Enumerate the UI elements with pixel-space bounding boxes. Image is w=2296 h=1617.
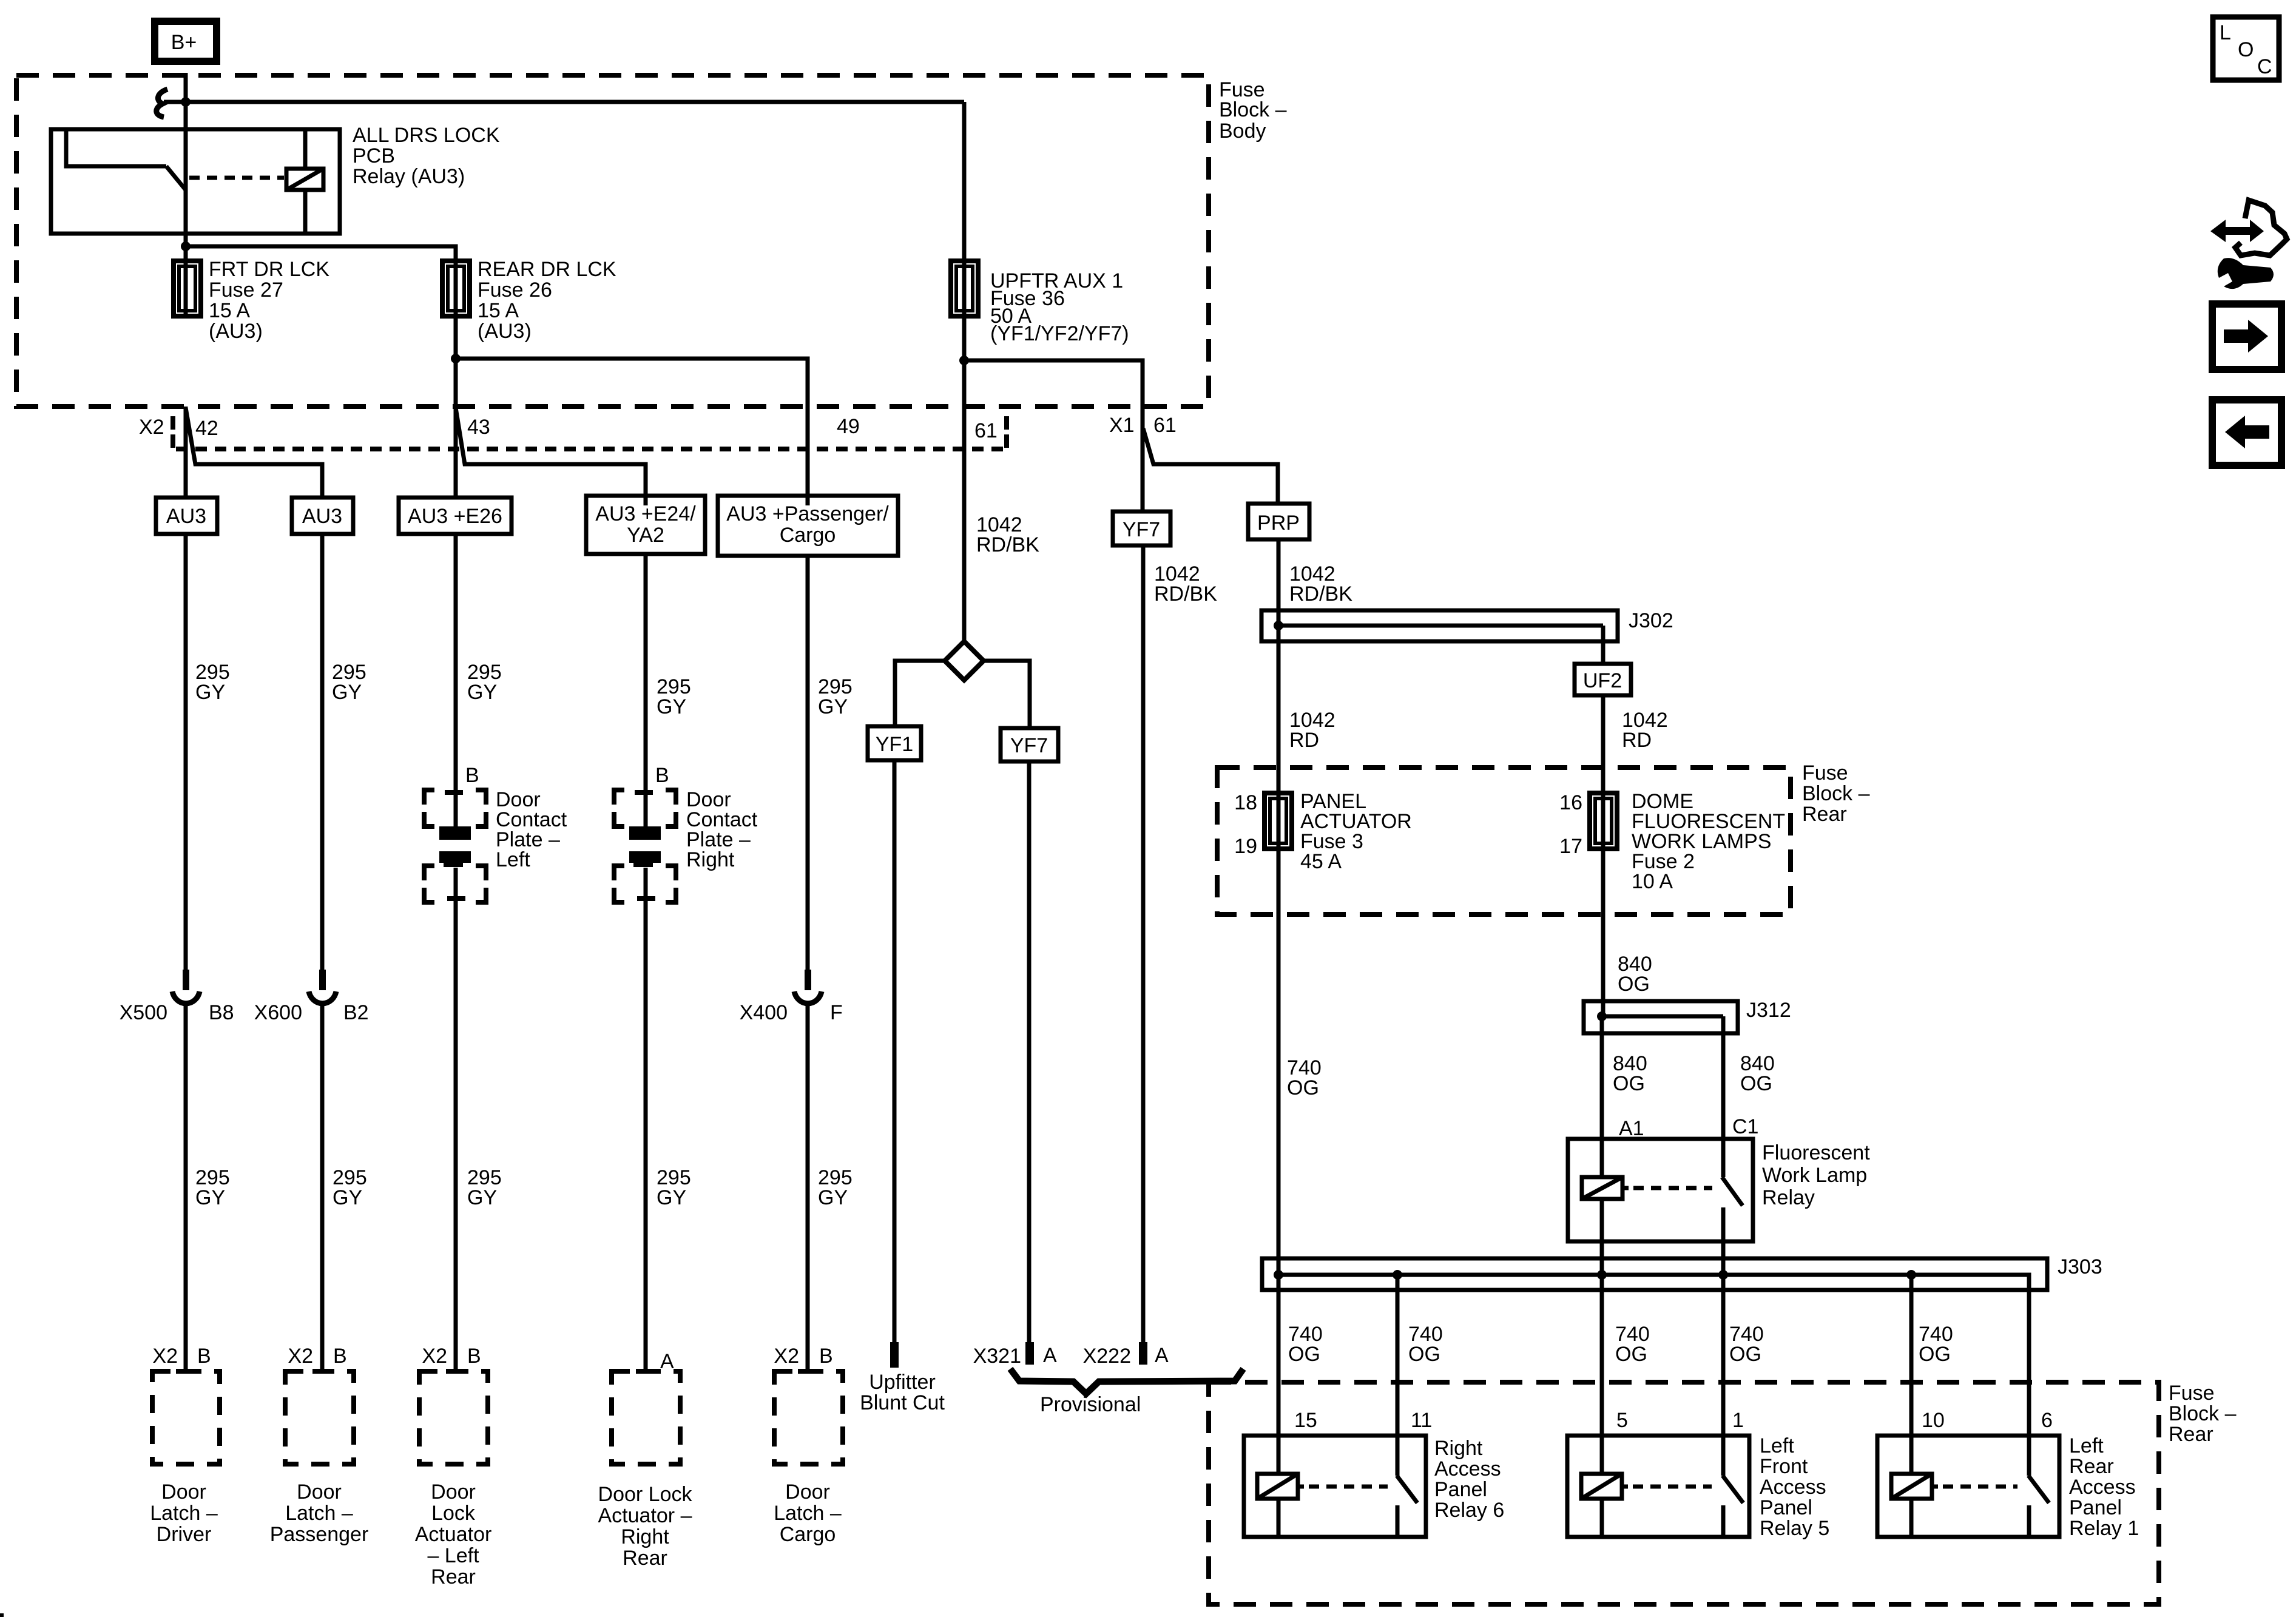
relay 1 actuation dashes bbox=[1943, 1485, 2017, 1489]
wire J303 to relay5 pin5 bbox=[1600, 1275, 1604, 1474]
power symbol B+ bbox=[155, 21, 217, 61]
wire 43a down bbox=[454, 534, 458, 826]
wire 42 down bbox=[184, 407, 188, 498]
svg-text:GY: GY bbox=[657, 1186, 686, 1209]
svg-text:Block –: Block – bbox=[2169, 1402, 2237, 1425]
svg-text:C1: C1 bbox=[1732, 1115, 1758, 1138]
svg-text:GY: GY bbox=[818, 695, 848, 718]
svg-text:15: 15 bbox=[1294, 1409, 1317, 1432]
svg-text:YF7: YF7 bbox=[1010, 734, 1048, 757]
wire X400 down bbox=[806, 1006, 810, 1371]
svg-text:18: 18 bbox=[1234, 791, 1257, 814]
label fuse 2 bbox=[1632, 790, 1785, 893]
svg-text:Lock: Lock bbox=[431, 1502, 476, 1525]
device box Door Lock Actuator Left Rear bbox=[419, 1371, 488, 1464]
svg-text:B: B bbox=[465, 764, 479, 787]
svg-text:(AU3): (AU3) bbox=[209, 320, 263, 343]
svg-text:GY: GY bbox=[333, 1186, 362, 1209]
splice pack J312 bbox=[1584, 1001, 1738, 1033]
svg-text:X321: X321 bbox=[973, 1345, 1021, 1368]
wire J303 to relay6 pin15 bbox=[1277, 1275, 1281, 1474]
corner mark bbox=[0, 1613, 4, 1617]
door contact plate right upper bracket bbox=[614, 790, 676, 826]
svg-text:UF2: UF2 bbox=[1583, 669, 1622, 692]
svg-text:Door: Door bbox=[297, 1480, 342, 1504]
wire YF7 X1 down bbox=[1141, 545, 1146, 1343]
wire diamond left branch to YF1 bbox=[895, 661, 945, 726]
svg-text:L: L bbox=[2220, 21, 2231, 44]
pin label X2 B (passenger latch) bbox=[288, 1345, 346, 1368]
svg-text:1: 1 bbox=[1732, 1409, 1744, 1432]
svg-text:Latch –: Latch – bbox=[150, 1502, 218, 1525]
svg-text:O: O bbox=[2238, 38, 2254, 61]
label Fuse Block - Body bbox=[1219, 78, 1287, 143]
svg-text:42: 42 bbox=[195, 417, 218, 440]
svg-text:B: B bbox=[655, 764, 669, 787]
svg-text:10 A: 10 A bbox=[1632, 870, 1673, 893]
upfitter blunt cut pin bbox=[890, 1342, 899, 1368]
connector X321 pin A bbox=[1025, 1342, 1034, 1365]
svg-text:(YF1/YF2/YF7): (YF1/YF2/YF7) bbox=[990, 322, 1129, 345]
svg-text:16: 16 bbox=[1559, 791, 1582, 814]
svg-text:Relay: Relay bbox=[1762, 1186, 1815, 1209]
svg-text:19: 19 bbox=[1234, 835, 1257, 858]
device box Door Lock Actuator Right Rear bbox=[612, 1371, 680, 1464]
wire label 295 GY r2c5 bbox=[818, 1166, 853, 1209]
wire YF1 down bbox=[893, 760, 897, 1342]
icon arrow left box bbox=[2212, 400, 2281, 465]
relay AU3 ALL DRS LOCK PCB box bbox=[51, 129, 340, 234]
provisional bracket bbox=[1010, 1369, 1243, 1394]
relay 6 switch stub bbox=[1396, 1505, 1400, 1535]
wire label 1042 RD/BK (PRP) bbox=[1289, 562, 1352, 606]
relay 1 coil bbox=[1891, 1474, 1938, 1535]
svg-text:OG: OG bbox=[1288, 1343, 1320, 1366]
svg-text:YF7: YF7 bbox=[1123, 518, 1160, 541]
svg-text:OG: OG bbox=[1919, 1343, 1951, 1366]
label Left Rear Access Panel Relay 1 bbox=[2069, 1434, 2139, 1540]
wire label 740 OG (fuse3) bbox=[1287, 1056, 1322, 1099]
label Door Lock Actuator Right Rear bbox=[598, 1483, 693, 1570]
svg-text:RD/BK: RD/BK bbox=[1289, 582, 1352, 606]
wire coil leg to J303 bbox=[1600, 1199, 1604, 1275]
svg-text:Door: Door bbox=[431, 1480, 476, 1504]
svg-text:PCB: PCB bbox=[353, 144, 395, 167]
svg-text:B: B bbox=[333, 1345, 347, 1368]
device box Door Latch Passenger bbox=[285, 1371, 354, 1464]
svg-text:Relay (AU3): Relay (AU3) bbox=[353, 165, 465, 188]
svg-text:ALL DRS LOCK: ALL DRS LOCK bbox=[353, 124, 500, 147]
svg-text:C: C bbox=[2257, 55, 2272, 78]
svg-text:RD/BK: RD/BK bbox=[976, 533, 1039, 556]
wire PRP down bbox=[1277, 539, 1281, 793]
svg-text:Upfitter: Upfitter bbox=[869, 1371, 936, 1394]
svg-text:10: 10 bbox=[1922, 1409, 1945, 1432]
svg-text:FRT DR LCK: FRT DR LCK bbox=[209, 258, 329, 281]
wire fuse2 to J312 bbox=[1601, 849, 1606, 1016]
svg-text:Rear: Rear bbox=[1802, 803, 1847, 826]
Fuse Block - Rear upper dashed box bbox=[1217, 768, 1791, 914]
relay coil K1 bbox=[286, 131, 323, 232]
svg-text:GY: GY bbox=[467, 1186, 497, 1209]
svg-text:YA2: YA2 bbox=[627, 524, 664, 547]
svg-text:Body: Body bbox=[1219, 120, 1266, 143]
svg-text:RD/BK: RD/BK bbox=[1154, 582, 1217, 606]
svg-text:Rear: Rear bbox=[431, 1565, 476, 1588]
label Door Contact Plate Left bbox=[496, 788, 567, 871]
connector X600 bbox=[309, 970, 336, 1004]
relay 1 switch stub bbox=[2027, 1505, 2031, 1535]
svg-text:49: 49 bbox=[837, 415, 860, 438]
fuse F26 REAR DR LCK bbox=[442, 261, 470, 316]
node box UF2 bbox=[1575, 664, 1631, 695]
svg-text:AU3 +Passenger/: AU3 +Passenger/ bbox=[726, 502, 889, 525]
relay 6 actuation dashes bbox=[1309, 1485, 1388, 1489]
wire fuse26 branch to pin 49 bbox=[456, 359, 808, 505]
node below relay bbox=[181, 241, 191, 251]
splice pack J303 bbox=[1262, 1258, 2047, 1290]
node box YF7 (splice) bbox=[1001, 728, 1058, 761]
wire label 840 OG (above J312) bbox=[1618, 953, 1652, 996]
svg-text:Door: Door bbox=[785, 1480, 830, 1504]
wire fuse 36 down bbox=[962, 316, 967, 641]
relay fixed contact feed bbox=[66, 131, 166, 166]
wire label 740 OG (pin5) bbox=[1615, 1323, 1650, 1366]
device box Door Latch Cargo bbox=[774, 1371, 843, 1464]
svg-text:X500: X500 bbox=[120, 1001, 167, 1024]
svg-text:AU3 +E24/: AU3 +E24/ bbox=[595, 502, 696, 525]
svg-text:B: B bbox=[819, 1345, 833, 1368]
svg-text:A1: A1 bbox=[1619, 1117, 1644, 1140]
svg-text:11: 11 bbox=[1411, 1409, 1432, 1432]
wire X600 down bbox=[320, 1006, 325, 1371]
relay actuation dashes (work lamp) bbox=[1633, 1186, 1712, 1190]
Fuse Block - Body dashed box bbox=[16, 75, 1209, 407]
relay 5 switch blade bbox=[1723, 1476, 1743, 1503]
relay 1 Left Rear Access Panel box bbox=[1877, 1436, 2059, 1537]
svg-text:Right: Right bbox=[621, 1525, 669, 1548]
Fuse Block - Rear lower dashed box bbox=[1209, 1382, 2159, 1604]
relay switch blade (work lamp) bbox=[1722, 1177, 1743, 1206]
svg-text:Access: Access bbox=[1760, 1476, 1826, 1499]
svg-text:J312: J312 bbox=[1746, 999, 1791, 1022]
wire YF7 splice down bbox=[1027, 761, 1032, 1343]
svg-text:Fuse 26: Fuse 26 bbox=[478, 279, 552, 302]
wire 43b down bbox=[644, 554, 648, 826]
svg-text:GY: GY bbox=[657, 695, 686, 718]
svg-text:GY: GY bbox=[195, 681, 225, 704]
label Door Lock Actuator Left Rear bbox=[415, 1480, 492, 1588]
wire 42b down bbox=[320, 534, 325, 971]
svg-text:F: F bbox=[830, 1001, 843, 1024]
label Left Front Access Panel Relay 5 bbox=[1760, 1434, 1829, 1540]
relay 5 coil bbox=[1581, 1474, 1628, 1535]
svg-text:Actuator: Actuator bbox=[415, 1523, 492, 1546]
wire fuse36 branch to X1 pin 61 bbox=[964, 360, 1143, 511]
label fuse 3 bbox=[1300, 790, 1412, 873]
svg-text:B: B bbox=[467, 1345, 481, 1368]
svg-text:GY: GY bbox=[467, 681, 497, 704]
svg-text:RD: RD bbox=[1622, 729, 1652, 752]
node splice junction bbox=[181, 97, 191, 107]
svg-text:Door: Door bbox=[161, 1480, 206, 1504]
wire X500 down bbox=[184, 1006, 188, 1371]
svg-text:X2: X2 bbox=[139, 416, 164, 439]
label X321 A bbox=[973, 1344, 1057, 1368]
wire label 295 GY (E24) bbox=[657, 675, 691, 718]
svg-text:Right: Right bbox=[686, 848, 735, 871]
relay actuation dashes bbox=[189, 176, 284, 180]
wire label 1042 RD/BK (fuse36) bbox=[976, 513, 1039, 556]
pin label X2 B (cargo latch) bbox=[774, 1345, 832, 1368]
svg-text:Left: Left bbox=[496, 848, 530, 871]
connector X400 bbox=[794, 970, 822, 1004]
svg-text:GY: GY bbox=[195, 1186, 225, 1209]
relay Fluorescent Work Lamp box bbox=[1568, 1139, 1753, 1241]
fuse F36 UPFTR AUX 1 bbox=[951, 102, 978, 316]
node box YF1 bbox=[868, 726, 921, 760]
svg-text:Fuse: Fuse bbox=[1802, 761, 1848, 785]
relay 5 switch stub bbox=[1721, 1505, 1726, 1535]
svg-text:Actuator –: Actuator – bbox=[598, 1504, 692, 1527]
icon LOC box bbox=[2213, 17, 2279, 80]
svg-text:15 A: 15 A bbox=[478, 299, 519, 322]
svg-text:Driver: Driver bbox=[157, 1523, 212, 1546]
svg-text:OG: OG bbox=[1729, 1343, 1761, 1366]
wire J303 to relay1 pin10 bbox=[1909, 1275, 1914, 1474]
svg-text:A: A bbox=[1155, 1344, 1169, 1367]
svg-text:Blunt Cut: Blunt Cut bbox=[860, 1391, 945, 1414]
node box AU3 +E26 bbox=[399, 498, 512, 534]
svg-text:Cargo: Cargo bbox=[780, 1523, 836, 1546]
svg-text:Rear: Rear bbox=[2069, 1455, 2114, 1478]
hook splice symbol bbox=[157, 89, 167, 117]
svg-text:OG: OG bbox=[1408, 1343, 1440, 1366]
svg-text:5: 5 bbox=[1616, 1409, 1628, 1432]
wire label 295 GY r2c1 bbox=[195, 1166, 230, 1209]
door contact plate left lower bracket bbox=[424, 866, 486, 902]
label fuse 36 bbox=[990, 269, 1129, 345]
svg-text:Left: Left bbox=[2069, 1434, 2104, 1457]
svg-text:B8: B8 bbox=[209, 1001, 234, 1024]
wire label 295 GY (E26) bbox=[467, 661, 502, 704]
svg-text:REAR DR LCK: REAR DR LCK bbox=[478, 258, 616, 281]
wire 49 down bbox=[806, 556, 810, 971]
label Fuse Block - Rear (upper) bbox=[1802, 761, 1870, 826]
wire J303 to relay5 pin1 bbox=[1721, 1275, 1726, 1476]
svg-text:Latch –: Latch – bbox=[285, 1502, 353, 1525]
wire label 840 OG (A1) bbox=[1613, 1052, 1647, 1095]
relay 6 Right Access Panel box bbox=[1244, 1436, 1426, 1537]
label Right Access Panel Relay 6 bbox=[1434, 1437, 1504, 1522]
label fuse 26 bbox=[478, 258, 616, 343]
svg-text:AU3 +E26: AU3 +E26 bbox=[408, 505, 502, 528]
svg-text:PRP: PRP bbox=[1257, 511, 1300, 535]
wire label 1042 RD (left) bbox=[1289, 709, 1335, 752]
door contact plate right lower bracket bbox=[614, 866, 676, 902]
svg-text:Work Lamp: Work Lamp bbox=[1762, 1164, 1867, 1187]
wire label 740 OG (pin11) bbox=[1408, 1323, 1443, 1366]
wire J312 right leg to C1 bbox=[1721, 1016, 1726, 1177]
svg-text:Relay 5: Relay 5 bbox=[1760, 1517, 1829, 1540]
wire J303 to relay6 pin11 bbox=[1396, 1275, 1400, 1476]
splice pack J302 bbox=[1261, 610, 1618, 641]
wire label 740 OG (pin1) bbox=[1729, 1323, 1764, 1366]
label X400 F bbox=[740, 1001, 843, 1024]
svg-text:X2: X2 bbox=[152, 1345, 178, 1368]
svg-text:Panel: Panel bbox=[1434, 1478, 1487, 1501]
wire J303 to relay1 pin6 bbox=[2027, 1275, 2031, 1476]
label X500 B8 bbox=[120, 1001, 234, 1024]
icon arrow right box bbox=[2212, 304, 2281, 370]
label ALL DRS LOCK PCB Relay (AU3) bbox=[353, 124, 500, 188]
svg-text:43: 43 bbox=[467, 416, 490, 439]
label Upfitter Blunt Cut bbox=[860, 1371, 945, 1414]
relay 5 Left Front Access Panel box bbox=[1567, 1436, 1749, 1537]
svg-text:Block –: Block – bbox=[1219, 98, 1287, 121]
pin label X2 B (driver latch) bbox=[152, 1345, 211, 1368]
node box PRP bbox=[1248, 504, 1309, 539]
relay 5 actuation dashes bbox=[1633, 1485, 1712, 1489]
wire label 740 OG (pin15) bbox=[1288, 1323, 1323, 1366]
svg-text:Cargo: Cargo bbox=[780, 524, 836, 547]
wire J312 left leg to A1 bbox=[1600, 1016, 1604, 1177]
svg-text:OG: OG bbox=[1618, 973, 1650, 996]
wire label 1042 RD/BK (YF7 X1) bbox=[1154, 562, 1217, 606]
node box AU3 (passenger) bbox=[292, 498, 353, 534]
connector X500 bbox=[172, 970, 200, 1004]
svg-text:X400: X400 bbox=[740, 1001, 788, 1024]
wire fuse 26 down bbox=[454, 316, 458, 407]
svg-text:A: A bbox=[1043, 1344, 1057, 1367]
svg-text:Left: Left bbox=[1760, 1434, 1794, 1457]
pin label X2 B (left rear actuator) bbox=[422, 1345, 481, 1368]
svg-text:J303: J303 bbox=[2058, 1255, 2102, 1278]
label X600 B2 bbox=[254, 1001, 369, 1024]
device box Door Latch Driver bbox=[152, 1371, 220, 1464]
svg-text:OG: OG bbox=[1613, 1072, 1645, 1095]
wire UF2 down bbox=[1601, 695, 1606, 793]
connector X222 pin A bbox=[1139, 1342, 1147, 1365]
node box AU3 +Passenger/Cargo bbox=[718, 496, 898, 556]
svg-text:15 A: 15 A bbox=[209, 299, 250, 322]
wire X1-61 jog branch to PRP bbox=[1143, 428, 1278, 504]
svg-text:X2: X2 bbox=[288, 1345, 313, 1368]
svg-text:J302: J302 bbox=[1629, 609, 1673, 632]
svg-text:X222: X222 bbox=[1083, 1345, 1131, 1368]
wire below left plate bbox=[454, 868, 458, 1373]
svg-text:Rear: Rear bbox=[623, 1547, 667, 1570]
svg-text:X2: X2 bbox=[774, 1345, 799, 1368]
wire label 295 GY (passenger) bbox=[332, 661, 366, 704]
svg-text:B: B bbox=[197, 1345, 211, 1368]
svg-text:45 A: 45 A bbox=[1300, 850, 1342, 873]
svg-text:X1: X1 bbox=[1109, 414, 1135, 437]
svg-text:Block –: Block – bbox=[1802, 782, 1870, 805]
relay 6 switch blade bbox=[1397, 1476, 1417, 1503]
wire diamond right branch to YF7 bbox=[984, 661, 1030, 728]
wire label 295 GY r2c3 bbox=[467, 1166, 502, 1209]
svg-text:X600: X600 bbox=[254, 1001, 302, 1024]
wire below right plate bbox=[644, 868, 648, 1371]
label fuse 27 bbox=[209, 258, 329, 343]
wire 43 jog branch bbox=[456, 408, 646, 505]
svg-text:Relay 1: Relay 1 bbox=[2069, 1517, 2139, 1540]
svg-text:Access: Access bbox=[2069, 1476, 2136, 1499]
node box AU3 (driver) bbox=[156, 498, 217, 534]
svg-text:Door Lock: Door Lock bbox=[598, 1483, 693, 1506]
wire label 740 OG (pin10) bbox=[1919, 1323, 1953, 1366]
relay 1 switch blade bbox=[2028, 1476, 2049, 1503]
svg-text:Right: Right bbox=[1434, 1437, 1483, 1460]
svg-text:GY: GY bbox=[818, 1186, 848, 1209]
splice diamond S1 bbox=[945, 641, 984, 680]
wire label 295 GY r2c4 bbox=[657, 1166, 691, 1209]
svg-text:(AU3): (AU3) bbox=[478, 320, 532, 343]
svg-text:B2: B2 bbox=[343, 1001, 369, 1024]
relay switch blade bbox=[166, 166, 186, 190]
wire label 295 GY (driver) bbox=[195, 661, 230, 704]
wire label 1042 RD (right) bbox=[1622, 709, 1668, 752]
svg-text:17: 17 bbox=[1559, 835, 1582, 858]
svg-text:Front: Front bbox=[1760, 1455, 1808, 1478]
wire relay to fuse 26 bbox=[186, 246, 456, 261]
svg-text:OG: OG bbox=[1740, 1072, 1772, 1095]
svg-text:RD: RD bbox=[1289, 729, 1319, 752]
label Door Latch Driver bbox=[150, 1480, 218, 1546]
svg-text:Fluorescent: Fluorescent bbox=[1762, 1141, 1870, 1164]
wire B+ down bbox=[184, 73, 188, 261]
svg-text:Access: Access bbox=[1434, 1457, 1501, 1480]
fuse F2 DOME FLUORESCENT WORK LAMPS bbox=[1590, 793, 1617, 849]
fuse F3 PANEL ACTUATOR bbox=[1264, 793, 1292, 849]
door contact plate left upper bracket bbox=[424, 790, 486, 826]
relay 6 coil bbox=[1257, 1474, 1304, 1535]
svg-text:Fuse 27: Fuse 27 bbox=[209, 279, 283, 302]
label Fluorescent Work Lamp Relay bbox=[1762, 1141, 1870, 1209]
icon diagnostics (arrow + wrench) bbox=[2210, 200, 2287, 289]
svg-text:Panel: Panel bbox=[2069, 1496, 2122, 1519]
wire J302 to UF2 bbox=[1601, 626, 1606, 664]
wire label 840 OG (C1) bbox=[1740, 1052, 1775, 1095]
svg-text:OG: OG bbox=[1615, 1343, 1647, 1366]
fuse F27 FRT DR LCK bbox=[174, 261, 201, 316]
node below fuse 36 bbox=[959, 356, 969, 365]
svg-text:– Left: – Left bbox=[427, 1544, 479, 1567]
label Door Latch Cargo bbox=[774, 1480, 842, 1546]
relay coil (work lamp) bbox=[1582, 1177, 1629, 1199]
node box AU3 +E24/YA2 bbox=[586, 496, 705, 554]
label Door Contact Plate Right bbox=[686, 788, 758, 871]
svg-text:Passenger: Passenger bbox=[270, 1523, 369, 1546]
svg-text:Rear: Rear bbox=[2169, 1423, 2213, 1446]
svg-text:AU3: AU3 bbox=[166, 505, 206, 528]
wire 43 down bbox=[454, 407, 458, 498]
label X222 A bbox=[1083, 1344, 1169, 1368]
door contact plate right contacts bbox=[629, 826, 661, 867]
svg-text:A: A bbox=[660, 1350, 674, 1373]
label Fuse Block - Rear (lower) bbox=[2169, 1382, 2237, 1446]
wire splice to fuse 36 bbox=[164, 100, 964, 104]
node box YF7 (X1) bbox=[1113, 511, 1170, 545]
svg-text:YF1: YF1 bbox=[876, 733, 913, 756]
svg-text:Panel: Panel bbox=[1760, 1496, 1812, 1519]
svg-text:AU3: AU3 bbox=[302, 505, 342, 528]
connector X2 dashed line bbox=[176, 447, 1003, 451]
label Door Latch Passenger bbox=[270, 1480, 369, 1546]
node below fuse 26 bbox=[451, 354, 461, 363]
svg-text:OG: OG bbox=[1287, 1076, 1319, 1099]
